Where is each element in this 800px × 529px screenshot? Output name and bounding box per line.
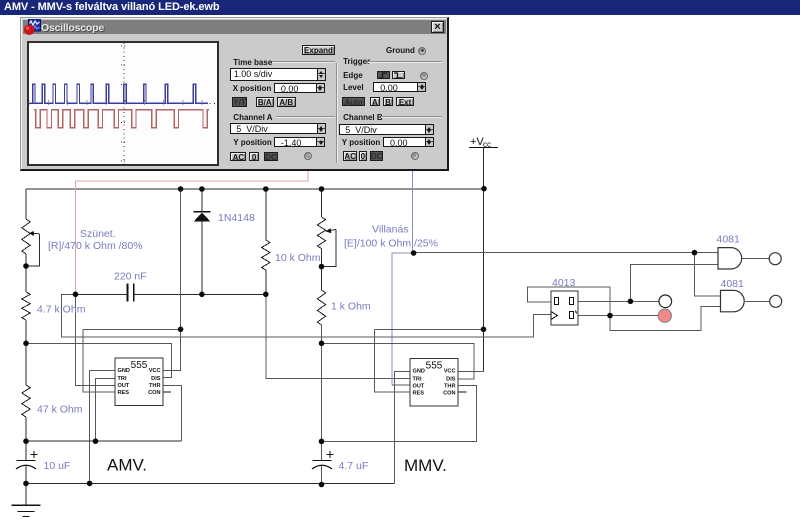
svg-text:10 k Ohm: 10 k Ohm [275, 252, 321, 264]
svg-text:MMV.: MMV. [404, 456, 447, 475]
svg-text:1 k Ohm: 1 k Ohm [331, 301, 371, 313]
svg-text:OUT: OUT [413, 383, 425, 389]
svg-text:Villanás: Villanás [372, 224, 409, 236]
svg-text:4.7 uF: 4.7 uF [339, 460, 369, 472]
svg-text:DIS: DIS [446, 376, 456, 382]
svg-text:4081: 4081 [717, 234, 741, 246]
svg-text:RES: RES [118, 390, 130, 396]
svg-text:VCC: VCC [444, 369, 456, 375]
svg-text:DIS: DIS [151, 376, 161, 382]
svg-text:GND: GND [413, 369, 425, 375]
svg-text:TRI: TRI [118, 376, 127, 382]
svg-text:RES: RES [413, 390, 425, 396]
svg-text:[E]/100 k Ohm /25%: [E]/100 k Ohm /25% [344, 238, 438, 250]
svg-text:4081: 4081 [721, 278, 745, 290]
svg-text:VCC: VCC [149, 368, 161, 374]
svg-text:Szünet.: Szünet. [80, 228, 116, 240]
svg-text:555: 555 [426, 361, 443, 372]
svg-text:AMV.: AMV. [107, 456, 147, 475]
svg-text:47 k Ohm: 47 k Ohm [37, 404, 83, 416]
svg-text:THR: THR [444, 383, 456, 389]
svg-text:1N4148: 1N4148 [218, 212, 255, 224]
svg-text:CON: CON [148, 390, 160, 396]
svg-text:TRI: TRI [413, 376, 422, 382]
svg-text:4.7 k Ohm: 4.7 k Ohm [37, 304, 86, 316]
svg-text:GND: GND [118, 368, 130, 374]
svg-text:10 uF: 10 uF [44, 460, 71, 472]
svg-text:OUT: OUT [118, 383, 130, 389]
svg-text:220 nF: 220 nF [114, 271, 147, 283]
svg-text:THR: THR [149, 383, 161, 389]
svg-text:[R]/470 k Ohm /80%: [R]/470 k Ohm /80% [48, 240, 143, 252]
svg-text:CON: CON [443, 390, 455, 396]
svg-text:4013: 4013 [552, 277, 576, 289]
svg-text:555: 555 [131, 360, 148, 371]
